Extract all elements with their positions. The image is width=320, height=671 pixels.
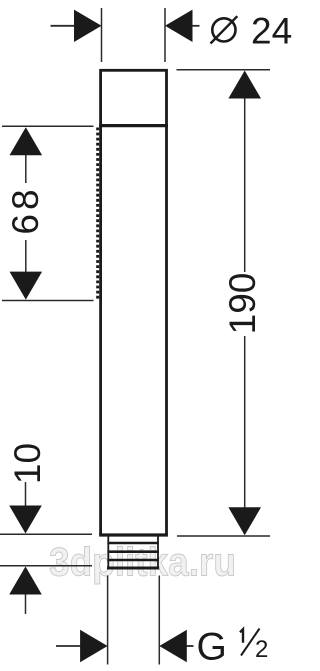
threaded connector xyxy=(108,537,158,569)
dimension 190 top arrow xyxy=(228,71,261,99)
dimension G1/2 right extension line xyxy=(158,576,160,665)
thread ridge 2 xyxy=(107,550,158,553)
dimension D24 extension line right xyxy=(164,8,166,62)
dimension 190 top extension line xyxy=(177,69,271,71)
dimension G1/2 left leader xyxy=(56,645,81,647)
dimension 190 line upper segment xyxy=(244,97,246,272)
dimension D24 left arrow xyxy=(74,10,102,42)
thread ridge 1 xyxy=(107,542,158,545)
dimension 10 lower arrow xyxy=(9,567,42,595)
shower head (top cap) outline xyxy=(101,70,167,125)
dimension 10 bottom extension line xyxy=(0,565,92,567)
thread ridge 3 xyxy=(107,559,158,562)
svg-text:2: 2 xyxy=(255,636,268,663)
dimension D24 label xyxy=(211,16,238,43)
dimension 10 line upper segment xyxy=(25,482,27,506)
dimension G1/2 right leader xyxy=(187,645,194,647)
svg-text:G: G xyxy=(197,626,227,669)
head/handle joint line xyxy=(99,124,168,127)
connector bottom edge xyxy=(107,567,159,570)
dimension 68 bottom arrow xyxy=(10,272,43,300)
dimension 190 line lower segment xyxy=(244,336,246,509)
dimension G1/2 left arrow xyxy=(80,630,108,662)
svg-text:24: 24 xyxy=(251,11,292,52)
dimension D24 right leader xyxy=(192,25,200,27)
grip texture dashed line xyxy=(96,128,99,301)
svg-text:190: 190 xyxy=(222,273,263,335)
dimension 68 line lower segment xyxy=(25,240,27,272)
dimension 10 top extension line xyxy=(0,533,92,535)
dimension D24 extension line left xyxy=(101,8,103,62)
svg-text:3dplitka.ru: 3dplitka.ru xyxy=(49,541,236,585)
dimension D24 left leader xyxy=(51,25,76,27)
dimension D24 right arrow xyxy=(165,10,193,42)
dimension G1/2 right arrow xyxy=(159,630,187,662)
dimension 68 bottom extension line xyxy=(2,300,94,302)
handle body outline xyxy=(99,126,168,535)
dimension 68 top extension line xyxy=(2,125,94,127)
dimension 68 top arrow xyxy=(10,127,43,155)
dimension G1/2 label fraction numerator 1 xyxy=(240,629,243,643)
svg-text:68: 68 xyxy=(5,185,46,234)
dimension 190 bottom arrow xyxy=(228,507,261,535)
dimension 190 bottom extension line xyxy=(177,535,270,537)
svg-text:10: 10 xyxy=(7,443,48,484)
dimension G1/2 left extension line xyxy=(107,576,109,665)
dimension 68 line upper segment xyxy=(25,155,27,183)
dimension 10 line lower segment xyxy=(25,595,27,615)
dimension 10 upper arrow xyxy=(9,506,42,534)
dimension G1/2 label fraction slash xyxy=(241,629,260,656)
